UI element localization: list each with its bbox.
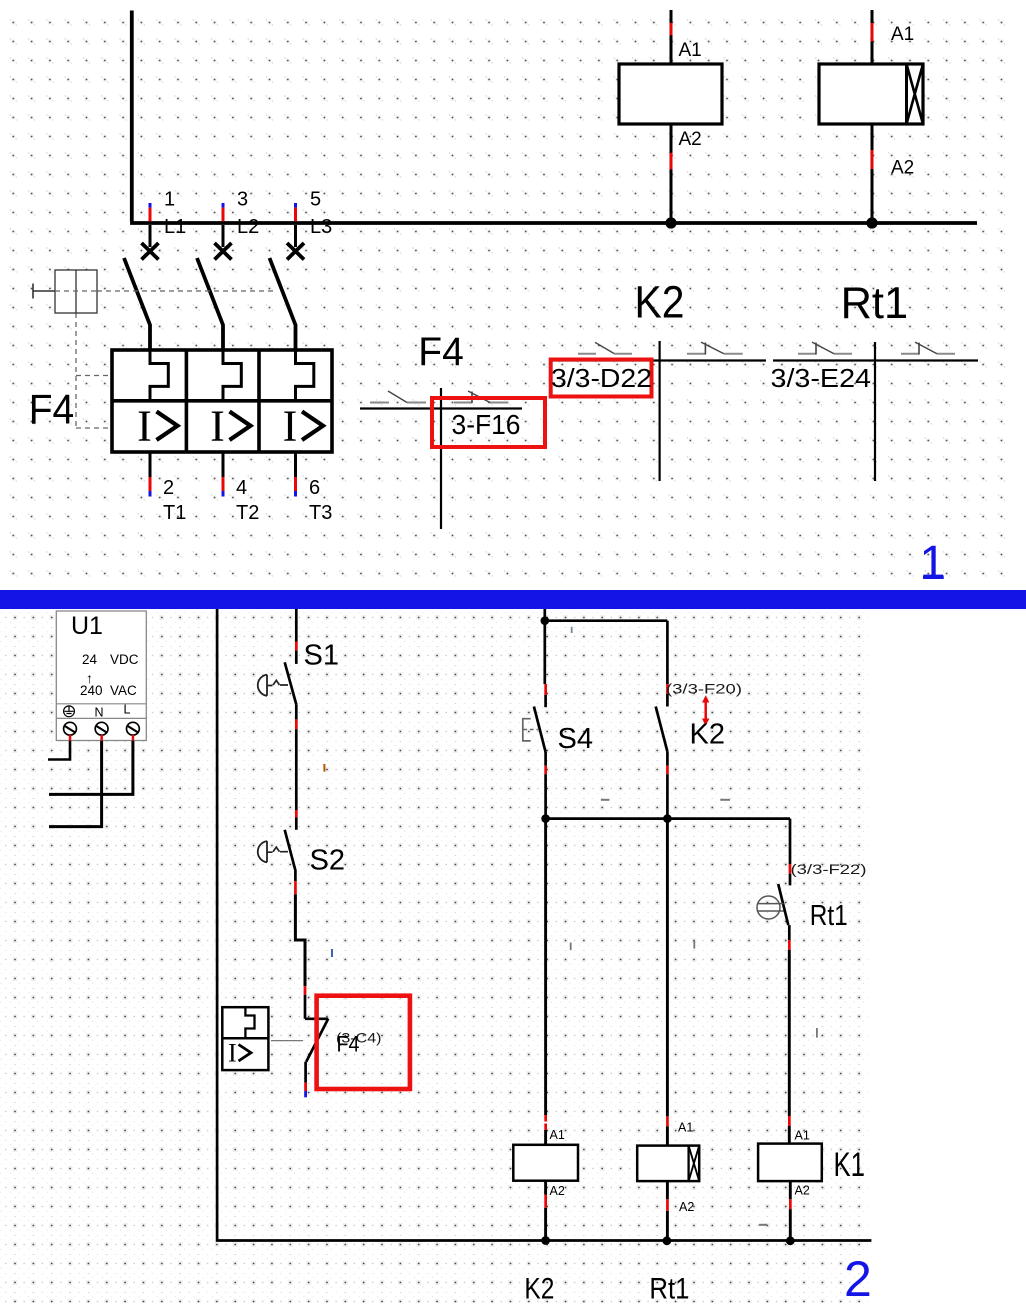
svg-text:K2: K2 (524, 1272, 554, 1305)
svg-text:2: 2 (844, 1251, 872, 1307)
wire S1 branch (295, 609, 298, 642)
wire Rt1 coil bottom (871, 124, 874, 222)
wire Rt1 contact branch (789, 819, 792, 864)
junction K2-bottom (541, 1236, 550, 1245)
link tick K1 (816, 1028, 818, 1038)
svg-text:VDC: VDC (110, 652, 139, 667)
svg-text:24: 24 (82, 652, 98, 667)
coil K2 (619, 64, 722, 124)
motor breaker F4 box (112, 350, 332, 452)
svg-text:U1: U1 (71, 612, 103, 640)
svg-text:3-F16: 3-F16 (452, 409, 521, 440)
junction Rt1-bus (866, 217, 877, 228)
wire L U1 (49, 741, 133, 795)
coil Rt1 timer (819, 64, 923, 124)
terminal 2 T1 (149, 452, 152, 477)
svg-text:F4: F4 (337, 1032, 360, 1057)
screw terminal L (126, 722, 139, 735)
svg-text:L3: L3 (310, 216, 332, 238)
svg-text:A2: A2 (679, 1200, 694, 1214)
wire N U1 (49, 741, 102, 827)
wire S2 to F4 contact (295, 894, 305, 986)
highlight box F4 (317, 996, 410, 1089)
junction K2-mid (663, 814, 672, 823)
svg-text:1: 1 (919, 537, 946, 590)
svg-text:Rt1: Rt1 (810, 900, 848, 932)
pushbutton S2 (285, 830, 296, 881)
svg-text:F4: F4 (418, 330, 464, 374)
link tick Rt1 (693, 941, 695, 949)
link tick S2 (331, 949, 333, 957)
svg-text:I: I (228, 1039, 237, 1068)
svg-text:I: I (283, 402, 298, 451)
svg-text:3: 3 (237, 189, 248, 211)
svg-text:I: I (210, 402, 225, 451)
contact K2 NO (656, 707, 668, 752)
svg-text:A2: A2 (795, 1184, 810, 1198)
screw terminal N (95, 722, 108, 735)
svg-text:A1: A1 (678, 1121, 693, 1135)
terminal 1 L1 (149, 203, 152, 208)
svg-text:3/3-E24: 3/3-E24 (771, 363, 872, 393)
junction S4-mid (541, 814, 550, 823)
wire bus bar top (130, 221, 977, 225)
highlight box 3/3-D22 (551, 360, 652, 397)
terminal 5 L3 (294, 203, 297, 208)
junction K1-bottom (786, 1236, 795, 1245)
switch S4 (534, 707, 546, 753)
junction K2-bus (665, 217, 676, 228)
svg-text:(3/3-F22): (3/3-F22) (791, 861, 867, 877)
terminal 3 L2 (222, 203, 225, 208)
svg-text:(3/3-F20): (3/3-F20) (666, 680, 742, 696)
terminal 6 T3 (294, 452, 297, 477)
svg-text:K1: K1 (834, 1146, 866, 1184)
svg-text:VAC: VAC (110, 683, 137, 698)
F4 mechanical linkage dashed (97, 290, 276, 292)
terminal 4 T2 (222, 452, 225, 477)
svg-text:K2: K2 (635, 277, 685, 328)
cross-reference Rt1 contacts (773, 359, 978, 361)
svg-text:5: 5 (310, 189, 321, 211)
svg-text:F4: F4 (29, 386, 74, 433)
F4 overload annotation box (222, 1007, 268, 1070)
svg-text:A1: A1 (679, 40, 702, 61)
wire K2 coil branch (544, 819, 547, 1115)
coil Rt1 timer (637, 1146, 699, 1182)
contact Rt1 NC thermal (778, 884, 788, 925)
svg-text:6: 6 (309, 477, 320, 499)
svg-text:T2: T2 (236, 502, 259, 524)
junction node top (541, 616, 550, 625)
highlight box 3-F16 (432, 398, 545, 447)
junction Rt1-bottom (663, 1236, 672, 1245)
svg-text:L1: L1 (164, 216, 186, 238)
svg-text:3/3-D22: 3/3-D22 (551, 363, 652, 393)
wire control rail left (217, 609, 871, 1241)
thermal element pole 3 (296, 350, 314, 401)
wire K2 coil top (670, 10, 673, 64)
svg-text:A1: A1 (550, 1128, 565, 1142)
link dash K1 (759, 1224, 767, 1226)
svg-text:A1: A1 (891, 24, 914, 45)
wire Rt1 coil branch (666, 819, 669, 1117)
wire S4 branch (543, 621, 546, 684)
svg-text:T1: T1 (163, 502, 186, 524)
svg-text:A1: A1 (795, 1129, 810, 1143)
svg-text:240: 240 (80, 683, 103, 698)
svg-text:K2: K2 (690, 719, 725, 751)
wire K1 coil branch (788, 1116, 791, 1126)
wire mid cross (546, 817, 790, 820)
svg-text:T3: T3 (309, 502, 332, 524)
breaker F4 pole 1 contact (149, 225, 152, 247)
wire earth U1 (48, 741, 70, 760)
pushbutton S1 (285, 662, 297, 704)
wire feeder vertical L (130, 11, 134, 222)
svg-text:L: L (124, 703, 131, 717)
svg-text:S1: S1 (304, 640, 339, 672)
svg-text:2: 2 (163, 477, 174, 499)
svg-text:L2: L2 (237, 216, 259, 238)
red arrow link (704, 700, 707, 721)
link dash S4 (601, 799, 610, 801)
link tick S4 branch (570, 943, 572, 951)
breaker F4 pole 2 contact (222, 225, 225, 247)
svg-text:Rt1: Rt1 (649, 1273, 689, 1306)
svg-text:A2: A2 (891, 158, 914, 179)
breaker F4 pole 3 contact (294, 225, 297, 247)
wire S1-S2 (295, 810, 298, 817)
svg-text:A2: A2 (550, 1184, 565, 1198)
screw terminal earth (64, 722, 77, 735)
wire Rt1 coil top (871, 10, 874, 64)
svg-text:A2: A2 (679, 129, 702, 150)
thermal element pole 1 (150, 350, 168, 401)
link dash K2 (720, 799, 730, 801)
wire top cross (545, 609, 668, 621)
svg-text:N: N (95, 706, 104, 720)
link tick S1 (323, 764, 325, 772)
coil K1 (758, 1144, 822, 1182)
svg-text:I: I (137, 402, 152, 451)
wire K2 coil bottom (670, 124, 673, 222)
power supply U1 (56, 611, 146, 741)
earth pin U1 (64, 706, 75, 717)
contact F4 NC (305, 1017, 328, 1020)
link tick top (571, 627, 573, 633)
F4 actuator box (32, 284, 34, 299)
svg-text:1: 1 (164, 189, 175, 211)
svg-text:Rt1: Rt1 (841, 279, 909, 328)
page divider bar (0, 590, 1026, 609)
cross-reference K2 contacts (552, 359, 766, 361)
svg-text:S2: S2 (310, 845, 345, 877)
svg-text:4: 4 (236, 477, 247, 499)
thermal element pole 2 (223, 350, 241, 401)
wire K2 contact branch (666, 621, 669, 684)
coil K2 (513, 1145, 578, 1181)
svg-text:S4: S4 (558, 723, 593, 755)
